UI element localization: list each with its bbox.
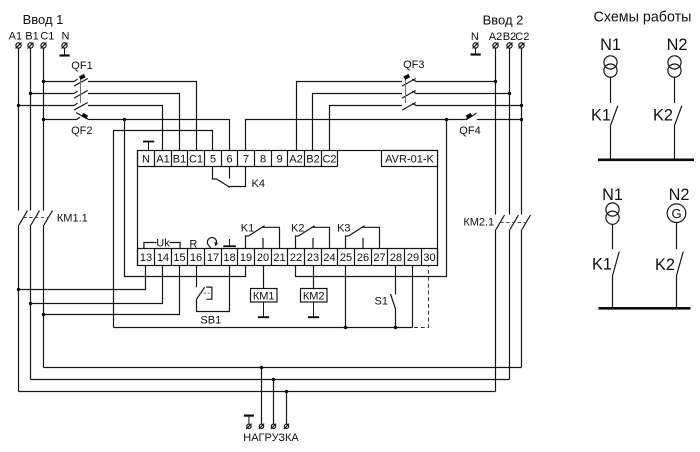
wire control bus dashed tail to terminal 30 (414, 266, 429, 328)
coil КМ1 box (251, 289, 278, 303)
terminal circle N input1 (62, 43, 68, 49)
ground symbol КМ2 (308, 302, 319, 317)
breaker QF3 pole2 blade (402, 91, 416, 99)
svg-text:Схемы работы: Схемы работы (594, 10, 692, 26)
svg-text:N2: N2 (669, 186, 690, 204)
wire terminal 29 down (412, 266, 414, 328)
svg-text:N: N (142, 154, 150, 166)
svg-text:6: 6 (226, 154, 232, 166)
switch S1 (391, 266, 396, 328)
wire phase A2 vertical lower (495, 230, 497, 392)
node dot QF2 branch (123, 118, 126, 121)
node dot C1-QF2 (42, 118, 45, 121)
svg-text:A1: A1 (156, 154, 169, 166)
breaker QF3 pole2 input wire (412, 91, 509, 93)
load terminal circle 3 (284, 424, 289, 429)
wire phase C1 vertical upper (43, 48, 45, 210)
wire terminal 25 down (345, 266, 347, 328)
svg-text:29: 29 (407, 252, 419, 264)
wire phase B1 vertical lower (30, 225, 32, 380)
svg-text:7: 7 (243, 154, 249, 166)
load bus phase A (19, 391, 496, 393)
svg-text:G: G (671, 206, 681, 221)
breaker QF3 mechanical link (405, 76, 407, 103)
breaker QF1 pole2 blade (74, 91, 88, 99)
wire phase C2 vertical lower (521, 230, 523, 368)
svg-text:13: 13 (140, 252, 152, 264)
wire control bus horizontal (114, 327, 413, 329)
node dot QF3 pole2 tap (508, 92, 511, 95)
ground symbol КМ1 (258, 302, 269, 317)
node dot QF1 pole1 tap (42, 80, 45, 83)
breaker QF3 marker square (403, 74, 410, 80)
breaker QF4 blade (466, 113, 476, 120)
svg-text:КМ2.1: КМ2.1 (463, 217, 494, 229)
svg-text:QF3: QF3 (403, 59, 424, 71)
neutral bar symbol input1 (60, 48, 70, 55)
scheme1 switch K2 (675, 77, 682, 158)
wire terminal to coil КМ1 (263, 266, 265, 290)
wire C1 to terminal 15 (44, 266, 180, 315)
wire phase A1 vertical lower (18, 225, 20, 392)
svg-text:K2: K2 (291, 223, 304, 235)
svg-text:K1: K1 (241, 223, 254, 235)
wire phase A1 vertical upper (18, 48, 20, 210)
node dot terminal 25 bus (344, 326, 347, 329)
svg-text:18: 18 (223, 252, 235, 264)
relay N terminal neutral bar (143, 142, 154, 151)
wire phase A2 vertical upper (495, 48, 497, 214)
wire QF3 pole2 output (313, 94, 403, 151)
svg-text:28: 28 (390, 252, 402, 264)
wire QF4 branch down to terminal 22 (296, 120, 447, 277)
load terminal circle 1 (259, 424, 264, 429)
load terminal circle 2 (271, 424, 276, 429)
breaker QF2 input wire (44, 117, 81, 119)
load terminal circle N (246, 424, 251, 429)
wire phase B1 vertical upper (30, 48, 32, 210)
svg-text:B2: B2 (503, 31, 516, 43)
breaker QF3 pole3 input wire (412, 103, 521, 105)
svg-text:25: 25 (340, 252, 352, 264)
wire QF1 pole1 output (88, 82, 197, 151)
breaker QF1 marker square (79, 74, 86, 80)
wire QF3 pole1 output (297, 82, 403, 151)
svg-text:A1: A1 (9, 31, 22, 43)
scheme2 generator G (667, 204, 686, 223)
node dot C1 branch 15 (42, 313, 45, 316)
svg-text:A2: A2 (289, 154, 302, 166)
breaker QF2 marker square (81, 113, 88, 119)
node dot load tap 3 (285, 390, 288, 393)
svg-text:C2: C2 (515, 31, 529, 43)
svg-text:НАГРУЗКА: НАГРУЗКА (243, 432, 299, 444)
breaker QF3 pole1 blade (402, 79, 416, 87)
svg-text:B1: B1 (173, 154, 186, 166)
terminal circle C1 (41, 43, 47, 49)
node dot B1 branch 14 (29, 302, 32, 305)
wire phase B2 vertical upper (509, 48, 511, 214)
svg-text:QF2: QF2 (71, 125, 92, 137)
relay contact K3 (346, 226, 380, 249)
svg-text:K4: K4 (252, 178, 265, 190)
svg-text:QF1: QF1 (71, 60, 92, 72)
relay Uk bracket (144, 243, 180, 249)
relay contact K4 (213, 167, 246, 188)
svg-text:17: 17 (207, 252, 219, 264)
rotation arrow symbol (207, 238, 216, 248)
svg-text:Uk: Uk (156, 238, 170, 250)
scheme1 bus bar (598, 159, 694, 162)
scheme1 transformer N1 (604, 56, 617, 77)
relay bottom terminal labels (140, 252, 436, 264)
svg-text:C1: C1 (40, 31, 54, 43)
terminal circle A1 (16, 43, 22, 49)
terminal circle B1 (28, 43, 34, 49)
svg-text:N1: N1 (600, 36, 621, 54)
wire load tap 1 down (261, 368, 263, 425)
svg-text:27: 27 (373, 252, 385, 264)
svg-text:SB1: SB1 (200, 315, 221, 327)
breaker QF4 marker square (466, 113, 473, 119)
svg-text:K1: K1 (591, 107, 611, 125)
svg-text:K2: K2 (655, 256, 675, 274)
svg-text:21: 21 (273, 252, 285, 264)
node dot C2-QF4 (520, 118, 523, 121)
node dot QF1 pole2 tap (29, 92, 32, 95)
svg-text:8: 8 (260, 154, 266, 166)
terminal circle N input2 (473, 43, 479, 49)
svg-text:R: R (189, 239, 197, 251)
wire QF1 pole2 output (88, 94, 180, 151)
node dot QF4 branch (445, 118, 448, 121)
svg-text:30: 30 (423, 252, 435, 264)
svg-text:Ввод 1: Ввод 1 (23, 12, 64, 27)
node dot QF3 pole1 tap (494, 80, 497, 83)
svg-text:9: 9 (276, 154, 282, 166)
wire QF1 pole3 output (88, 106, 163, 151)
scheme2 switch K2 (677, 223, 684, 308)
svg-text:K2: K2 (653, 107, 673, 125)
terminal circle B2 (507, 43, 513, 49)
relay contact K1 (246, 226, 280, 249)
svg-text:AVR-01-K: AVR-01-K (385, 154, 434, 166)
pushbutton SB1 link dashed (200, 292, 210, 294)
node dot load tap 1 (260, 366, 263, 369)
coil КМ2 box (301, 289, 328, 303)
svg-text:N: N (471, 31, 479, 43)
svg-text:K1: K1 (592, 256, 612, 274)
breaker QF3 pole1 input wire (412, 79, 495, 81)
relay top terminal row boxes (138, 151, 338, 167)
relay bottom terminal row boxes (138, 249, 438, 266)
scheme1 transformer N2 (668, 56, 681, 77)
wire QF3 pole3 output (330, 106, 403, 151)
earth symbol over terminal 18 (223, 239, 236, 246)
svg-text:19: 19 (240, 252, 252, 264)
svg-text:14: 14 (157, 252, 169, 264)
wire QF2 output to relay terminal 6 (88, 120, 229, 151)
svg-text:26: 26 (357, 252, 369, 264)
contactor KM2.1 link dashed (501, 222, 527, 224)
terminal circle C2 (519, 43, 525, 49)
breaker QF1 mechanical link (80, 76, 82, 103)
relay label box AVR-01-K (382, 151, 438, 167)
terminal circle A2 (493, 43, 499, 49)
contactor KM1.1 link dashed (24, 217, 49, 219)
load bus phase C (44, 367, 522, 369)
pushbutton SB1 (197, 266, 230, 312)
svg-text:КМ2: КМ2 (303, 291, 325, 303)
svg-text:24: 24 (323, 252, 335, 264)
svg-text:S1: S1 (375, 296, 388, 308)
neutral bar symbol input2 (471, 48, 481, 54)
svg-text:5: 5 (210, 154, 216, 166)
wire phase C1 vertical lower (43, 225, 45, 368)
wire load tap 2 down (273, 380, 275, 425)
load bus phase B (31, 379, 510, 381)
svg-text:23: 23 (307, 252, 319, 264)
svg-text:B2: B2 (306, 154, 319, 166)
relay AVR-01-K outline (138, 151, 438, 266)
svg-text:QF4: QF4 (459, 125, 480, 137)
breaker QF1 pole3 blade (74, 103, 88, 111)
wire A1 to terminal 13 (19, 266, 146, 290)
wire terminal to coil КМ2 (313, 266, 315, 290)
wire phase C2 vertical upper (521, 48, 523, 214)
breaker QF1 pole1 input wire (44, 79, 78, 81)
contactor KM2.1 blades (496, 215, 531, 230)
svg-text:C1: C1 (189, 154, 203, 166)
svg-text:КМ1.1: КМ1.1 (57, 213, 88, 225)
svg-text:N1: N1 (602, 186, 623, 204)
breaker QF2 blade (76, 113, 88, 120)
scheme2 switch K1 (613, 224, 620, 308)
wire QF4 output to relay terminal 7 (246, 117, 470, 150)
node dot S1 bus (394, 326, 397, 329)
svg-text:КМ1: КМ1 (253, 291, 275, 303)
svg-text:K3: K3 (337, 223, 350, 235)
breaker QF1 pole2 input wire (31, 91, 78, 93)
wire phase B2 vertical lower (509, 230, 511, 380)
scheme1 switch K1 (611, 77, 618, 158)
svg-text:A2: A2 (489, 31, 502, 43)
svg-text:N2: N2 (667, 36, 688, 54)
svg-text:20: 20 (257, 252, 269, 264)
breaker QF3 pole3 blade (402, 103, 416, 111)
wire load tap 3 down (286, 392, 288, 425)
svg-text:C2: C2 (322, 154, 336, 166)
svg-text:16: 16 (190, 252, 202, 264)
wire relay terminal 5 to left riser (114, 131, 213, 328)
svg-text:Ввод 2: Ввод 2 (483, 13, 524, 28)
node dot QF1 pole3 tap (17, 104, 20, 107)
svg-text:15: 15 (173, 252, 185, 264)
wire B1 to terminal 14 (31, 266, 163, 304)
breaker QF4 input wire (477, 119, 522, 121)
breaker QF1 pole1 blade (74, 79, 88, 87)
load neutral bar symbol (244, 416, 254, 424)
relay top terminal labels (142, 154, 337, 166)
svg-text:B1: B1 (25, 31, 38, 43)
svg-text:22: 22 (290, 252, 302, 264)
contactor KM1.1 blades (19, 211, 53, 225)
node dot load tap 2 (272, 378, 275, 381)
breaker QF1 pole3 input wire (19, 103, 78, 105)
wire QF2 branch down to terminal 19 (125, 120, 246, 277)
node dot A1 branch 13 (17, 288, 20, 291)
svg-text:N: N (62, 31, 70, 43)
node dot QF3 pole3 tap (520, 104, 523, 107)
scheme2 bus bar (599, 307, 691, 310)
scheme2 transformer N1 (606, 203, 619, 224)
relay contact K2 (296, 226, 330, 249)
